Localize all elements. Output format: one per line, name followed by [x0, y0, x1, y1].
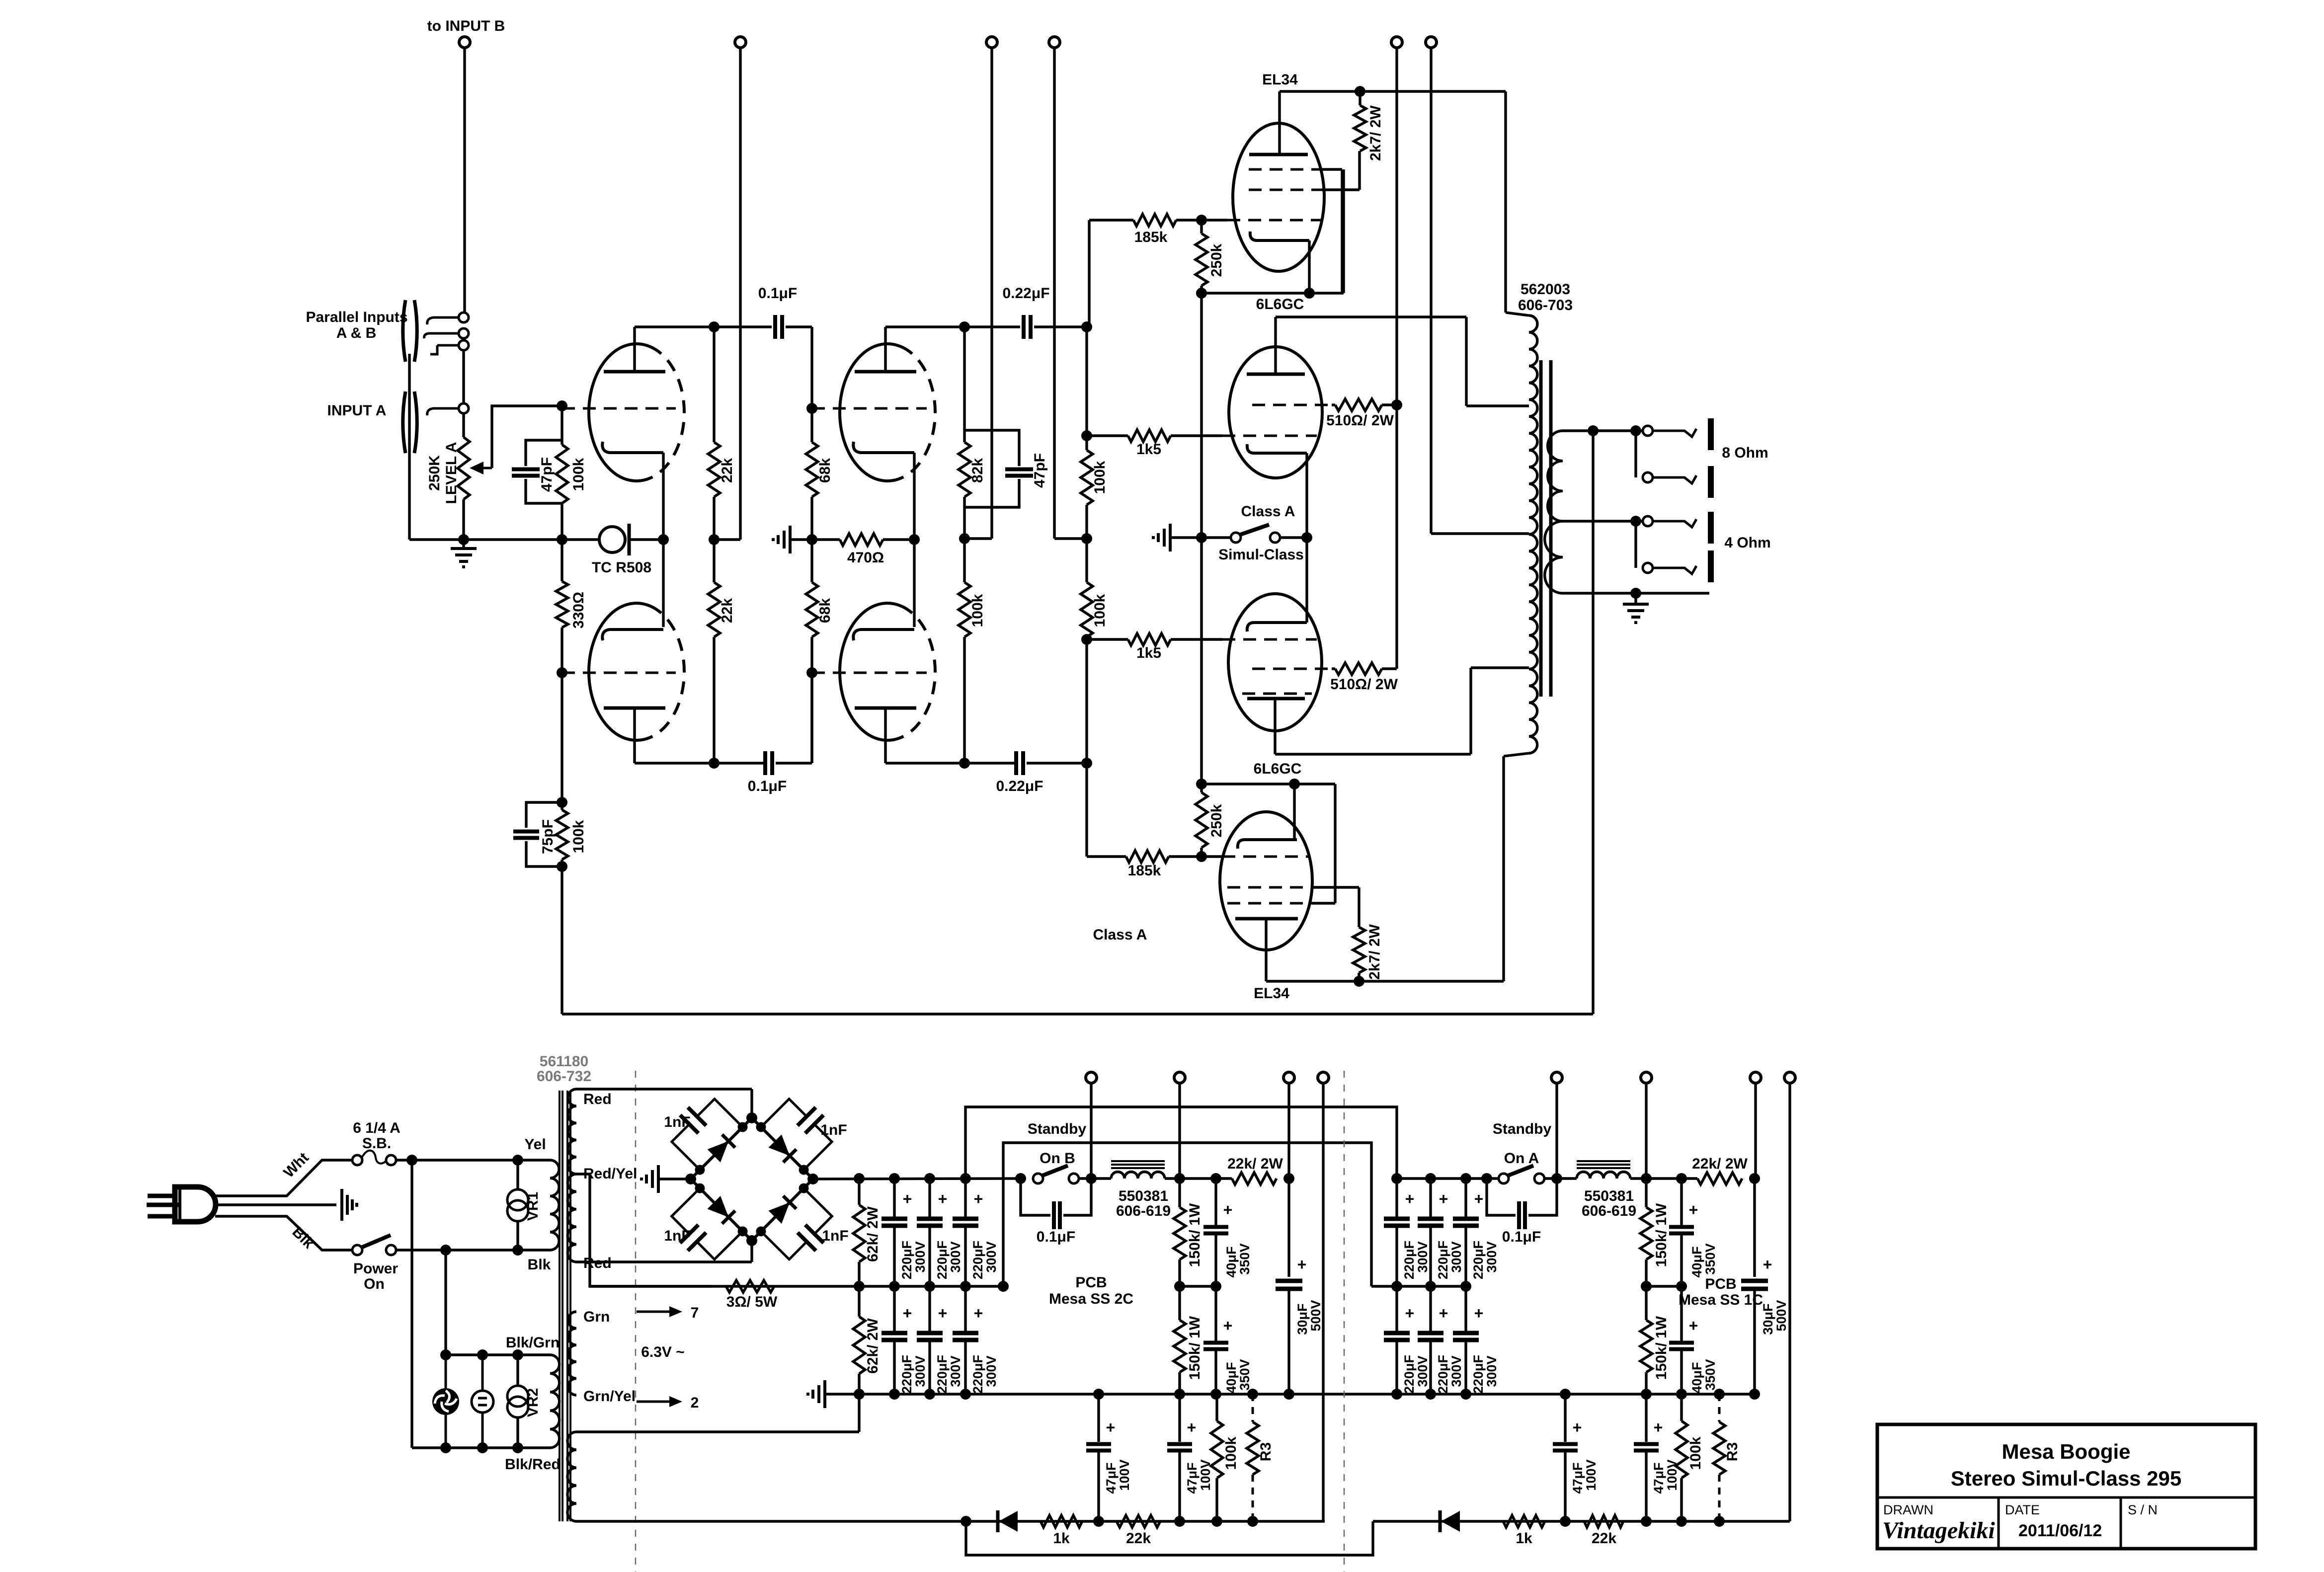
- svg-text:47μF: 47μF: [1651, 1462, 1666, 1493]
- triode V1a: [589, 344, 650, 481]
- wire A+ line: [1397, 1177, 1504, 1179]
- svg-text:+: +: [1763, 1256, 1772, 1273]
- wire bias jog: [966, 1521, 1373, 1555]
- wire 4ohm line: [1563, 520, 1643, 522]
- resistor 100k (V1a cathode-grid): [561, 406, 563, 445]
- svg-text:On B: On B: [1040, 1150, 1075, 1167]
- svg-text:Blk: Blk: [528, 1257, 551, 1273]
- svg-text:1nF: 1nF: [820, 1122, 847, 1138]
- capacitor 47pF: [526, 440, 562, 466]
- svg-text:68k: 68k: [817, 598, 833, 623]
- node bias B left: [961, 1516, 971, 1527]
- svg-text:8 Ohm: 8 Ohm: [1722, 445, 1768, 461]
- wire heater primary line: [446, 1353, 550, 1356]
- svg-text:62k/ 2W: 62k/ 2W: [865, 1206, 881, 1261]
- node 1k5 lower tap: [1081, 634, 1092, 645]
- wire HV CT: [576, 1174, 712, 1286]
- terminal B+ splitter: [1049, 37, 1060, 48]
- varistor VR2: [516, 1355, 519, 1386]
- svg-text:Blk/Red: Blk/Red: [505, 1456, 561, 1473]
- svg-text:300V: 300V: [984, 1355, 999, 1387]
- svg-text:PCB: PCB: [1075, 1274, 1107, 1291]
- capacitor 220uF A row2 #3: [1464, 1286, 1467, 1333]
- svg-text:330Ω: 330Ω: [570, 592, 587, 629]
- svg-text:47μF: 47μF: [1570, 1462, 1585, 1493]
- svg-text:300V: 300V: [948, 1241, 963, 1272]
- node Bmid 1800: [889, 1281, 900, 1292]
- ground input: [462, 540, 465, 549]
- node Bplus C3: [960, 1173, 971, 1184]
- wire EL34 plate bus: [1280, 90, 1506, 92]
- node 82k mid: [959, 533, 970, 544]
- svg-text:2011/06/12: 2011/06/12: [2018, 1521, 2102, 1540]
- capacitor 220uF B row1 #2: [928, 1179, 931, 1218]
- svg-text:220μF: 220μF: [1471, 1355, 1486, 1394]
- wire switch connections: [1206, 536, 1231, 539]
- wire bias winding bottom: [576, 1520, 966, 1522]
- svg-text:1k: 1k: [1053, 1530, 1070, 1547]
- grid3 wire EL34 lower: [1227, 902, 1312, 905]
- plate lead 6L6 upper: [1274, 317, 1277, 374]
- wire A 150k rail: [1645, 1083, 1647, 1179]
- node B 40uF top: [1210, 1173, 1221, 1184]
- capacitor 40uF B upper: [1214, 1179, 1217, 1226]
- wire class switch rail lower: [1200, 538, 1202, 784]
- resistor 22k A: [1584, 1515, 1623, 1527]
- resistor 510 ohm upper: [1335, 399, 1382, 411]
- svg-text:150k/ 1W: 150k/ 1W: [1653, 1316, 1670, 1380]
- svg-text:300V: 300V: [913, 1241, 928, 1272]
- svg-text:7: 7: [691, 1305, 699, 1321]
- svg-text:+: +: [1689, 1201, 1698, 1219]
- resistor 510 ohm lower: [1335, 663, 1382, 675]
- node NFB network bottom: [557, 861, 567, 872]
- divider dashed left: [635, 1071, 637, 1572]
- choke 550381 A: [1577, 1172, 1630, 1179]
- svg-text:DATE: DATE: [2005, 1502, 2040, 1517]
- ground bridge: [658, 1178, 691, 1180]
- node grid V1a: [557, 400, 567, 411]
- svg-text:2k7/ 2W: 2k7/ 2W: [1367, 105, 1384, 160]
- svg-text:22k: 22k: [719, 458, 735, 483]
- wire 8ohm lower: [1634, 431, 1637, 477]
- capacitor 75pF: [526, 802, 562, 828]
- svg-text:300V: 300V: [1484, 1241, 1499, 1272]
- svg-text:+: +: [1223, 1201, 1233, 1219]
- svg-text:DRAWN: DRAWN: [1883, 1502, 1933, 1517]
- wire B 150k rail: [1178, 1083, 1181, 1179]
- terminal A 150k: [1641, 1072, 1652, 1083]
- svg-text:82k: 82k: [969, 458, 986, 483]
- resistor 100k NFB: [561, 802, 563, 810]
- svg-text:500V: 500V: [1308, 1300, 1323, 1331]
- terminal B 150k: [1174, 1072, 1185, 1083]
- node B 150k mid: [1174, 1281, 1185, 1292]
- svg-text:R3: R3: [1258, 1442, 1274, 1461]
- svg-text:1nF: 1nF: [664, 1114, 690, 1130]
- svg-text:6L6GC: 6L6GC: [1254, 761, 1302, 777]
- capacitor 40uF A upper: [1680, 1179, 1683, 1226]
- svg-text:300V: 300V: [1415, 1355, 1430, 1387]
- node grid EL34 upper: [1196, 215, 1207, 226]
- wire TC to cathode: [629, 538, 663, 541]
- grid wire EL34 upper input: [1202, 219, 1227, 221]
- node gnd rail 2521: [1247, 1389, 1258, 1400]
- node Amid 2879: [1425, 1281, 1436, 1292]
- wire EL34 bus to OT: [1504, 91, 1507, 313]
- svg-text:+: +: [1439, 1190, 1448, 1208]
- node gnd rail 2594: [1283, 1389, 1294, 1400]
- node VR2 bottom: [512, 1442, 523, 1453]
- node gnd rail 2811: [1391, 1389, 1402, 1400]
- svg-text:22k/ 2W: 22k/ 2W: [1227, 1156, 1283, 1172]
- resistor 250k lower: [1200, 784, 1202, 792]
- svg-text:220μF: 220μF: [1402, 1241, 1417, 1279]
- svg-text:606-619: 606-619: [1582, 1203, 1636, 1219]
- wire fuse to transformer: [396, 1159, 550, 1161]
- svg-text:100k: 100k: [1092, 461, 1108, 494]
- jack J2 bracket (INPUT A): [403, 392, 405, 453]
- node NFB network top: [557, 797, 567, 808]
- resistor 100k A: [1680, 1394, 1683, 1421]
- node Bplus 62k: [854, 1173, 865, 1184]
- wire 6L6 lower plate to OT: [1275, 753, 1471, 755]
- svg-text:Vintagekiki: Vintagekiki: [1882, 1517, 1995, 1544]
- node fan bottom: [440, 1442, 451, 1453]
- svg-text:220μF: 220μF: [1402, 1355, 1417, 1394]
- svg-text:47pF: 47pF: [539, 457, 555, 492]
- node A 30uF top: [1749, 1173, 1760, 1184]
- node VR1 bottom: [512, 1245, 523, 1256]
- svg-text:250k: 250k: [1208, 804, 1225, 837]
- PT primary winding 2: [550, 1355, 560, 1448]
- node Aplus 2950: [1460, 1173, 1471, 1184]
- wire crossover mid: [1003, 1143, 1371, 1286]
- wire coupling line lower stage2: [885, 762, 1016, 764]
- cathode lead 6L6 lower: [1305, 538, 1308, 623]
- svg-text:510Ω/ 2W: 510Ω/ 2W: [1326, 412, 1394, 429]
- wire bus elbow to grid3: [1334, 784, 1336, 903]
- capacitor 0.1uF B: [1021, 1179, 1050, 1215]
- resistor 1k5 lower: [1087, 638, 1128, 640]
- switch Class A / Simul-Class: [1231, 533, 1241, 543]
- wire bias winding top: [576, 1430, 859, 1433]
- svg-text:0.22μF: 0.22μF: [1002, 285, 1049, 302]
- svg-text:Mesa Boogie: Mesa Boogie: [2002, 1440, 2130, 1463]
- svg-text:1nF: 1nF: [822, 1228, 848, 1244]
- svg-text:+: +: [903, 1190, 912, 1208]
- capacitor 47uF A2: [1645, 1394, 1647, 1442]
- wire cap to 100k rail: [1034, 325, 1087, 328]
- switch Standby On A: [1499, 1174, 1509, 1183]
- svg-text:150k/ 1W: 150k/ 1W: [1187, 1203, 1203, 1267]
- diode bias B: [999, 1511, 1018, 1532]
- wire bias B rail: [1090, 1083, 1092, 1179]
- svg-text:22k: 22k: [1592, 1530, 1616, 1547]
- svg-text:Simul-Class: Simul-Class: [1218, 547, 1304, 563]
- wire switch A out: [1544, 1177, 1577, 1179]
- svg-text:30μF: 30μF: [1295, 1303, 1310, 1335]
- resistor 100k B: [1215, 1394, 1218, 1421]
- grid wire V1a: [562, 407, 676, 410]
- svg-text:Mesa SS 1C: Mesa SS 1C: [1679, 1292, 1763, 1308]
- ground speaker: [1634, 593, 1637, 604]
- wire lower grid bus: [1202, 783, 1335, 785]
- resistor 330 ohm: [561, 540, 563, 581]
- node gnd rail 1943: [960, 1389, 971, 1400]
- svg-text:Standby: Standby: [1493, 1121, 1552, 1137]
- node secondary ground: [1630, 588, 1641, 599]
- triode V2a: [840, 344, 901, 481]
- terminal B aux: [1318, 1072, 1329, 1083]
- resistor 1k5 upper: [1087, 434, 1128, 437]
- svg-text:350V: 350V: [1237, 1243, 1252, 1274]
- node 4ohm: [1630, 516, 1641, 527]
- resistor 68k lower: [810, 540, 813, 582]
- capacitor 40uF A lower: [1680, 1286, 1683, 1341]
- node B 150k top: [1174, 1173, 1185, 1184]
- svg-text:40μF: 40μF: [1224, 1362, 1239, 1393]
- svg-text:Grn: Grn: [583, 1309, 610, 1325]
- svg-text:1k: 1k: [1516, 1530, 1532, 1547]
- jack sleeve bars: [1708, 418, 1714, 450]
- node 2k7 bottom: [1354, 976, 1364, 987]
- svg-text:R3: R3: [1724, 1442, 1741, 1461]
- node gnd rail 2447: [1210, 1389, 1221, 1400]
- svg-text:350V: 350V: [1703, 1359, 1718, 1390]
- terminal A 30uF: [1750, 1072, 1761, 1083]
- wire plate line stage1 top: [635, 325, 772, 328]
- svg-text:1k5: 1k5: [1136, 645, 1161, 661]
- wire B aux rail: [1322, 1083, 1324, 1521]
- svg-text:470Ω: 470Ω: [847, 550, 884, 566]
- node bias A 1: [1560, 1516, 1571, 1527]
- wire choke B out: [1165, 1177, 1232, 1179]
- resistor 3 ohm 5W: [726, 1280, 774, 1292]
- wire 6L6 plate to OT: [1465, 317, 1467, 406]
- svg-text:100k: 100k: [570, 458, 587, 491]
- wire cathode V2 vertical: [913, 453, 915, 627]
- wire HV top to bridge: [576, 1088, 752, 1090]
- svg-text:40μF: 40μF: [1689, 1246, 1704, 1277]
- wire A aux rail: [1788, 1083, 1791, 1521]
- svg-text:62k/ 2W: 62k/ 2W: [865, 1318, 881, 1373]
- svg-text:40μF: 40μF: [1224, 1246, 1239, 1277]
- wire crossover plus: [965, 1107, 1397, 1179]
- resistor 1k A: [1503, 1515, 1545, 1527]
- jack J2 tip contact: [459, 403, 469, 413]
- resistor R3 B: [1252, 1394, 1254, 1422]
- capacitor 30uF A: [1753, 1179, 1756, 1277]
- resistor 22k/2W A: [1697, 1173, 1742, 1184]
- wire B+ splitter rail: [1053, 48, 1055, 539]
- svg-text:Grn/Yel: Grn/Yel: [583, 1388, 636, 1405]
- plate lead EL34 lower: [1265, 919, 1267, 981]
- wire class switch rail upper: [1200, 293, 1202, 538]
- wire rail to 185k lower: [1085, 763, 1088, 857]
- node gnd rail 2950: [1460, 1389, 1471, 1400]
- wire plug neutral: [215, 1216, 352, 1250]
- resistor 22k B: [1117, 1515, 1160, 1527]
- potentiometer LEVEL A 250K: [458, 437, 470, 499]
- terminal bias A out: [1551, 1072, 1562, 1083]
- capacitor 40uF B lower: [1214, 1286, 1217, 1341]
- node Bplus C1: [889, 1173, 900, 1184]
- svg-text:562003: 562003: [1521, 281, 1570, 298]
- wire mains rail 2: [444, 1250, 447, 1355]
- node gnd rail 1800: [889, 1389, 900, 1400]
- node Bmid 1943: [960, 1281, 971, 1292]
- svg-text:PCB: PCB: [1705, 1276, 1736, 1292]
- svg-text:+: +: [1689, 1317, 1698, 1335]
- thermistor TC R508: [599, 527, 625, 552]
- wire EL34 lower plate line: [1266, 980, 1504, 982]
- svg-text:EL34: EL34: [1262, 72, 1298, 88]
- node gnd rail 2374: [1174, 1389, 1185, 1400]
- svg-text:A & B: A & B: [336, 325, 377, 341]
- svg-text:300V: 300V: [1449, 1241, 1464, 1272]
- wire mains rail 1: [410, 1160, 413, 1448]
- node grid V1b: [557, 667, 567, 678]
- pentode 6L6GC lower: [1228, 594, 1322, 731]
- resistor 2k7 upper: [1359, 91, 1361, 105]
- node bias B 2374: [1174, 1516, 1185, 1527]
- plate lead EL34 upper: [1278, 91, 1281, 155]
- node fan top: [440, 1349, 451, 1360]
- grid wire V2a: [812, 407, 927, 410]
- svg-text:+: +: [1297, 1256, 1307, 1273]
- resistor 100k stage2 lower: [963, 539, 965, 582]
- wire EL34 lower to OT: [1502, 756, 1505, 981]
- svg-text:550381: 550381: [1584, 1188, 1634, 1204]
- node bias B 1: [1093, 1516, 1104, 1527]
- wire CT rail: [1430, 48, 1432, 534]
- wire 8ohm line: [1563, 429, 1643, 432]
- node 82k top: [959, 321, 970, 332]
- wire B mid line: [590, 1285, 1003, 1287]
- resistor 250k upper: [1200, 220, 1202, 234]
- svg-text:100V: 100V: [1198, 1459, 1213, 1491]
- grid wire 6L6GC upper: [1222, 435, 1317, 437]
- node Amid 2950: [1460, 1281, 1471, 1292]
- svg-text:220μF: 220μF: [1436, 1241, 1450, 1279]
- wire bias A rail: [1555, 1083, 1558, 1179]
- lamp symbol: [481, 1355, 484, 1391]
- svg-text:to INPUT B: to INPUT B: [427, 18, 505, 34]
- svg-text:300V: 300V: [913, 1355, 928, 1387]
- svg-text:Mesa SS 2C: Mesa SS 2C: [1049, 1291, 1133, 1307]
- cathode lead 6L6 upper: [1305, 453, 1308, 538]
- switch Standby On B: [1033, 1174, 1043, 1183]
- svg-text:Red/Yel: Red/Yel: [583, 1166, 637, 1182]
- svg-text:3Ω/ 5W: 3Ω/ 5W: [726, 1294, 778, 1310]
- svg-text:+: +: [1474, 1190, 1484, 1208]
- svg-text:185k: 185k: [1134, 229, 1168, 245]
- svg-text:+: +: [1405, 1304, 1415, 1322]
- svg-text:+: +: [1106, 1418, 1116, 1436]
- terminal A aux: [1784, 1072, 1795, 1083]
- wire pot wiper to grid: [492, 406, 562, 468]
- cathode lead EL34 lower: [1293, 784, 1295, 840]
- node gnd rail 2211: [1093, 1389, 1104, 1400]
- arrow pin 2: [637, 1401, 671, 1403]
- node cathode EL34 upper: [1304, 288, 1315, 299]
- node gnd rail 1729: [854, 1389, 865, 1400]
- node Bmid 1871: [924, 1281, 935, 1292]
- svg-text:0.1μF: 0.1μF: [1502, 1229, 1541, 1245]
- svg-text:6.3V ~: 6.3V ~: [641, 1344, 685, 1360]
- capacitor 220uF B row1 #1: [893, 1179, 895, 1218]
- svg-text:Parallel Inputs: Parallel Inputs: [306, 309, 407, 325]
- svg-text:+: +: [903, 1304, 912, 1322]
- svg-text:100k: 100k: [969, 594, 986, 627]
- node 250k bottom: [1196, 288, 1207, 299]
- svg-text:220μF: 220μF: [935, 1241, 950, 1279]
- node 22k mid: [709, 534, 720, 545]
- wire bias line A: [1373, 1520, 1790, 1522]
- wire jack to pot: [462, 413, 465, 437]
- svg-text:S.B.: S.B.: [362, 1135, 391, 1152]
- capacitor 30uF B: [1287, 1179, 1290, 1277]
- wire 4ohm lower: [1634, 521, 1637, 568]
- terminal bias B out: [1086, 1072, 1097, 1083]
- resistor R3 A: [1718, 1394, 1721, 1422]
- svg-text:300V: 300V: [1484, 1355, 1499, 1387]
- node 68k mid: [806, 534, 817, 545]
- node fuse out: [406, 1155, 417, 1166]
- wire cap lower to rail: [1027, 762, 1087, 764]
- svg-text:185k: 185k: [1128, 863, 1161, 879]
- capacitor 47uF B2: [1178, 1394, 1181, 1442]
- node bias A 3460: [1714, 1516, 1725, 1527]
- fuse 6 1/4 A: [352, 1155, 362, 1165]
- terminal B+ output screens: [1391, 37, 1402, 48]
- node A 40uF mid: [1676, 1281, 1687, 1292]
- svg-text:150k/ 1W: 150k/ 1W: [1653, 1203, 1670, 1267]
- resistor 1k B: [1041, 1515, 1082, 1527]
- arrow pin 7: [637, 1311, 671, 1313]
- wire B 150k mid: [1180, 1285, 1216, 1287]
- svg-text:+: +: [974, 1190, 983, 1208]
- svg-text:Class A: Class A: [1093, 927, 1147, 943]
- capacitor 47pF stage2: [964, 430, 1019, 466]
- svg-text:350V: 350V: [1703, 1243, 1718, 1274]
- svg-text:On A: On A: [1504, 1150, 1539, 1167]
- node A 150k mid: [1641, 1281, 1652, 1292]
- node grid V2a: [806, 403, 817, 414]
- ground stage2: [789, 526, 792, 553]
- OT primary winding: [1529, 315, 1537, 753]
- svg-text:+: +: [1187, 1418, 1197, 1436]
- svg-text:TC R508: TC R508: [592, 559, 651, 576]
- svg-text:220μF: 220μF: [899, 1241, 914, 1279]
- node 100k bottom: [959, 758, 970, 769]
- svg-text:40μF: 40μF: [1689, 1362, 1704, 1393]
- plate lead V2b: [884, 708, 886, 763]
- svg-text:22k/ 2W: 22k/ 2W: [1692, 1156, 1748, 1172]
- ground class switch: [1169, 524, 1172, 551]
- svg-text:220μF: 220μF: [970, 1241, 985, 1279]
- node splitter mid: [1081, 533, 1092, 544]
- resistor 82k: [963, 327, 965, 442]
- cathode lead EL34 upper: [1308, 240, 1310, 293]
- capacitor 0.22uF upper: [1022, 315, 1026, 339]
- capacitor 0.22uF lower: [1014, 751, 1018, 775]
- svg-text:+: +: [1654, 1418, 1663, 1436]
- node cathode V2: [909, 534, 920, 545]
- node bias B 2449: [1211, 1516, 1222, 1527]
- wire coupling line lower stage1: [635, 762, 765, 764]
